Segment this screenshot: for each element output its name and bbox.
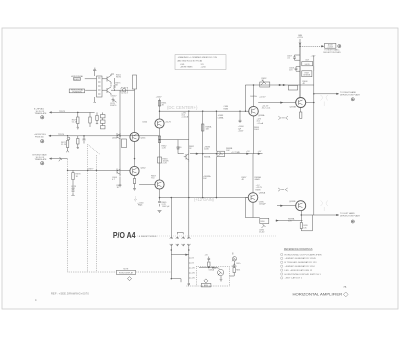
svg-text:123: 123 bbox=[201, 64, 204, 66]
svg-text:41.2 +0.4: 41.2 +0.4 bbox=[262, 108, 271, 110]
svg-text:Q661: Q661 bbox=[141, 138, 147, 140]
svg-text:R666: R666 bbox=[138, 205, 142, 207]
svg-text:C691+: C691+ bbox=[236, 263, 241, 265]
svg-text:R691: R691 bbox=[236, 270, 240, 272]
svg-text:DEFLECTION PLATE: DEFLECTION PLATE bbox=[340, 215, 361, 218]
svg-text:1.2K: 1.2K bbox=[162, 148, 167, 150]
svg-text:HORIZONTAL AMPLIFIER: HORIZONTAL AMPLIFIER bbox=[293, 293, 343, 297]
svg-text:51.1K: 51.1K bbox=[72, 122, 78, 124]
svg-text:+325V: +325V bbox=[111, 96, 118, 98]
svg-text:Q664: Q664 bbox=[112, 138, 118, 140]
svg-text:P/O A4: P/O A4 bbox=[113, 231, 136, 240]
svg-text:(+12 GAIN): (+12 GAIN) bbox=[194, 197, 215, 202]
svg-text:51.1K: 51.1K bbox=[61, 144, 67, 146]
svg-text:POSITION: POSITION bbox=[72, 92, 82, 94]
svg-text:Q662: Q662 bbox=[141, 168, 147, 170]
svg-text:Q694B: Q694B bbox=[290, 106, 297, 108]
svg-text:SE691: SE691 bbox=[232, 266, 237, 268]
svg-text:IDENT: IDENT bbox=[74, 79, 81, 81]
svg-text:+12V: +12V bbox=[311, 55, 316, 57]
svg-text:10K: 10K bbox=[203, 178, 207, 180]
svg-text:HORIZONTAL DISPLAY SWITCH 1: HORIZONTAL DISPLAY SWITCH 1 bbox=[285, 273, 322, 276]
svg-text:15-60: 15-60 bbox=[259, 232, 265, 234]
svg-text:NOTE:: NOTE: bbox=[123, 269, 129, 271]
svg-text:Q695A: Q695A bbox=[259, 192, 266, 195]
svg-text:75: 75 bbox=[343, 285, 347, 289]
svg-text:DESIGN: DESIGN bbox=[303, 75, 311, 77]
svg-text:TP670: TP670 bbox=[58, 134, 65, 136]
svg-text:R692A: R692A bbox=[250, 95, 257, 98]
svg-text:+225V: +225V bbox=[297, 37, 304, 39]
svg-text:TRANSLATE: TRANSLATE bbox=[35, 158, 48, 161]
svg-text:+1234: +1234 bbox=[201, 67, 206, 69]
svg-text:DS670: DS670 bbox=[110, 105, 117, 107]
svg-text:REF: +SEE.DRAWING+0070: REF: +SEE.DRAWING+0070 bbox=[51, 292, 89, 295]
svg-text:+SWEEP GENERATOR 12345: +SWEEP GENERATOR 12345 bbox=[285, 257, 317, 260]
svg-text:C665 1pF: C665 1pF bbox=[162, 206, 169, 208]
svg-text:GAIN: GAIN bbox=[255, 178, 261, 181]
svg-text:Q695B: Q695B bbox=[289, 201, 296, 203]
svg-text:R690 750: R690 750 bbox=[212, 268, 219, 270]
svg-text:2.2K: 2.2K bbox=[163, 163, 168, 165]
svg-text:& SHEET SIZES: & SHEET SIZES bbox=[139, 236, 157, 238]
svg-text:TRANSLATE: TRANSLATE bbox=[35, 112, 48, 115]
svg-text:R677: R677 bbox=[89, 168, 95, 170]
svg-text:C660: C660 bbox=[142, 122, 148, 124]
svg-text:Q694A: Q694A bbox=[258, 114, 265, 117]
svg-text:+READINGS +/- OBTAINED UNDER 1: +READINGS +/- OBTAINED UNDER 1/O CON bbox=[178, 56, 218, 59]
svg-text:LOW:: LOW: bbox=[180, 64, 185, 66]
svg-text:+22.2V: +22.2V bbox=[165, 122, 172, 124]
svg-text:100K: 100K bbox=[204, 149, 209, 151]
svg-text:+12 TIME: +12 TIME bbox=[231, 152, 241, 154]
svg-text:+225V: +225V bbox=[238, 131, 244, 133]
svg-text:B TRIGGER GENERATOR 123: B TRIGGER GENERATOR 123 bbox=[285, 261, 318, 264]
svg-text:+22.2V: +22.2V bbox=[259, 97, 266, 99]
svg-text:+SWEEP GENERATOR 1234: +SWEEP GENERATOR 1234 bbox=[285, 265, 316, 268]
svg-text:R698: R698 bbox=[256, 189, 262, 191]
svg-text:+MORE TIMES: +MORE TIMES bbox=[180, 67, 193, 69]
svg-text:HORIZONTAL OUTPUT AMPLIFIER: HORIZONTAL OUTPUT AMPLIFIER bbox=[285, 253, 323, 256]
svg-text:DEFLECTION PLATE: DEFLECTION PLATE bbox=[323, 51, 341, 54]
svg-text:L607: L607 bbox=[305, 60, 309, 62]
svg-text:L6070: L6070 bbox=[305, 64, 310, 66]
svg-text:B690: B690 bbox=[204, 285, 208, 287]
svg-text:REFERENCE DRAWINGS: REFERENCE DRAWINGS bbox=[284, 247, 313, 251]
svg-text:1234pF: 1234pF bbox=[259, 204, 267, 206]
svg-text:LED +MODIFICATIONS 12: LED +MODIFICATIONS 12 bbox=[285, 269, 314, 272]
svg-text:FROM J60: FROM J60 bbox=[35, 136, 44, 138]
svg-text:+NOT LAYOUT 1: +NOT LAYOUT 1 bbox=[285, 277, 303, 280]
svg-text:R676: R676 bbox=[116, 77, 122, 79]
svg-text:+1234V: +1234V bbox=[327, 47, 333, 49]
svg-text:+5V: +5V bbox=[246, 151, 250, 153]
svg-text:C688A: C688A bbox=[218, 116, 225, 119]
svg-text:DEFLECTION PLATE: DEFLECTION PLATE bbox=[340, 93, 361, 96]
svg-text:+1.2mA: +1.2mA bbox=[257, 122, 264, 125]
svg-text:10K: 10K bbox=[226, 150, 230, 152]
svg-text:AND GND IN 100 KO P/O A4: AND GND IN 100 KO P/O A4 bbox=[178, 59, 203, 62]
svg-text:+5V: +5V bbox=[258, 151, 262, 153]
svg-text:R683A: R683A bbox=[204, 155, 211, 158]
svg-text:R696: R696 bbox=[261, 221, 265, 223]
svg-text:R686: R686 bbox=[224, 108, 229, 110]
svg-text:(DC CENTER+): (DC CENTER+) bbox=[167, 105, 198, 110]
svg-text:TP675: TP675 bbox=[59, 111, 66, 113]
svg-text:+0.4mA: +0.4mA bbox=[181, 116, 188, 119]
svg-text:+225V: +225V bbox=[156, 96, 163, 98]
svg-text:HORIZ DISPLAY: HORIZ DISPLAY bbox=[119, 272, 134, 275]
svg-text:HORIZONTAL: HORIZONTAL bbox=[71, 75, 83, 78]
